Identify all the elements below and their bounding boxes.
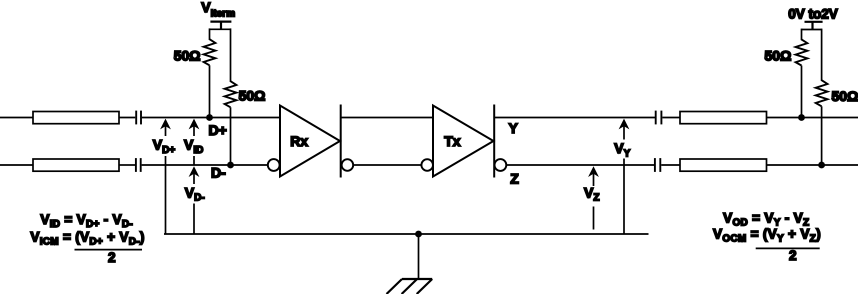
svg-text:50Ω: 50Ω [174,48,201,64]
inversion bubble at Rx inverted output [342,159,354,171]
inversion bubble Rx D- input [268,159,280,171]
wire: left 50ohm bottom lead to D+ [209,65,211,117]
wire: V_Z arrow shaft [593,173,595,186]
wire: termination connector [210,28,231,30]
wire: V_Z reference line to ground rail [593,207,595,230]
node D+ junction dot [206,114,213,121]
wire: left 50ohm top lead [209,28,211,40]
Tx output bar [493,105,495,178]
wire: right 50ohm top lead [230,28,232,82]
wire: D- input lead [0,164,34,166]
svg-text:Z: Z [510,171,519,187]
svg-text:50Ω: 50Ω [765,47,792,63]
svg-text:Rx: Rx [290,133,308,149]
wire: Z 50ohm top lead [821,29,823,81]
arrow V_Y (to Y rail) [619,119,630,130]
svg-text:D+: D+ [209,122,227,138]
inversion bubble Tx Z output [495,159,507,171]
wire: right 50ohm bottom lead to D- [230,107,232,165]
resistor 50ohm (termination, D- side) [225,81,237,107]
wire: V_D- reference line to ground rail [193,204,195,235]
wire: D- capacitor to Rx inverting input [142,164,268,166]
svg-text:50Ω: 50Ω [832,88,858,104]
node D- junction dot [227,162,234,169]
wire: V_Y reference line to ground rail [623,159,625,235]
svg-text:D-: D- [211,164,226,180]
arrow V_Z (to Z rail) [588,166,599,177]
svg-text:Y: Y [509,120,519,136]
wire: ground reference rail [164,233,649,235]
transmission line (Z output) [680,159,767,171]
wire: Z rect to right edge [767,164,858,166]
terminal bar 0V-2V [805,22,823,30]
wire: V_D+ reference line to ground rail [165,156,167,234]
svg-text:2: 2 [108,250,116,265]
terminal bar V_Iterm [210,22,231,30]
wire: Y rect to right edge [767,117,858,119]
wire: Z capacitor to rect [661,164,680,166]
wire: V_D- arrow shaft [193,173,195,184]
Rx output bar [340,105,342,178]
wire: Y 50ohm top lead [801,29,803,41]
capacitor (D+ coupling) [136,111,141,125]
transmission line (D+ input) [33,112,119,124]
wire: Rx inverted output to Tx inverting input [353,164,421,166]
wire: V_D+ arrow shaft [165,126,167,136]
resistor 50ohm (termination, Z side) [816,80,828,106]
arrow V_D- (to D- rail) [189,166,200,177]
wire: D+ rect to capacitor [119,117,135,119]
arrow V_ID (to D+ rail) [189,119,200,130]
wire: Y capacitor to rect [662,117,680,119]
wire: Rx output to Tx input (non-inverting) [341,117,433,119]
wire: V_Y arrow shaft [623,126,625,140]
wire: Y 50ohm bottom lead to Y node [801,66,803,118]
resistor 50ohm (termination, Y side) [796,39,808,65]
node Y termination dot [798,114,805,121]
svg-text:0V to2V: 0V to2V [788,6,838,21]
wire: D+ capacitor to Rx input [142,117,280,119]
wire: D- rect to capacitor [119,164,135,166]
op-amp Rx receiver triangle [280,106,340,177]
wire: V_ID line to D- rail [193,156,195,165]
transmission line (Y output) [680,112,767,124]
fraction bar (V_ICM) [75,249,143,251]
node Z termination dot [818,162,825,169]
capacitor (Z coupling) [655,158,660,172]
arrow V_D+ (to D+ rail) [160,119,171,130]
capacitor (D- coupling) [136,158,141,172]
svg-text:2: 2 [789,248,797,263]
svg-text:Tx: Tx [444,133,461,149]
wire: D+ input lead [0,117,34,119]
wire: ground stem [418,234,420,279]
transmission line (D- input) [33,159,119,171]
wire: V_ID arrow shaft [193,126,195,136]
node ground rail junction dot [415,231,422,238]
capacitor (Y coupling) [656,111,662,125]
wire: right termination connector [802,29,822,31]
wire: Y output from Tx [494,117,655,119]
fraction bar (V_OCM) [756,247,820,249]
inversion bubble at Tx inverting input [421,159,433,171]
resistor 50ohm (termination, D+ side) [204,39,216,65]
op-amp Tx driver triangle [433,106,494,177]
ground (chassis) symbol [387,279,433,294]
svg-text:50Ω: 50Ω [239,87,266,103]
wire: Z 50ohm bottom lead to Z node [821,106,823,165]
wire: Z output from Tx [506,164,654,166]
